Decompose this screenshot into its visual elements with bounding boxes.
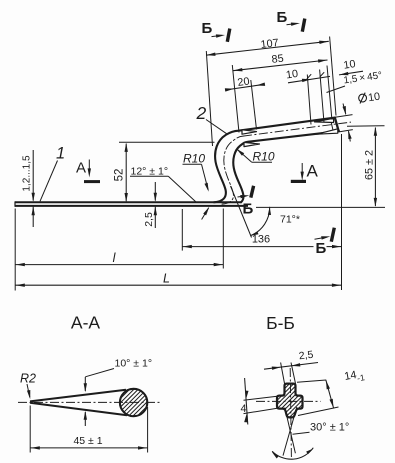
svg-text:R10: R10	[253, 150, 275, 164]
svg-text:Б: Б	[202, 20, 213, 37]
svg-text:30° ± 1°: 30° ± 1°	[310, 422, 349, 434]
svg-text:2: 2	[196, 103, 207, 123]
svg-text:Б: Б	[243, 201, 254, 218]
svg-text:10: 10	[343, 58, 357, 72]
svg-text:65 ± 2: 65 ± 2	[363, 150, 375, 180]
svg-text:71°*: 71°*	[280, 214, 300, 226]
svg-text:Б: Б	[277, 9, 288, 26]
svg-text:Б: Б	[316, 240, 327, 257]
svg-text:4: 4	[241, 403, 247, 415]
svg-text:1: 1	[56, 145, 65, 163]
svg-text:10° ± 1°: 10° ± 1°	[115, 358, 153, 370]
svg-text:10: 10	[285, 68, 299, 82]
svg-text:2,5: 2,5	[143, 212, 155, 227]
svg-text:20: 20	[237, 75, 251, 89]
svg-text:136: 136	[252, 234, 270, 246]
svg-text:R2: R2	[20, 372, 36, 386]
svg-text:R10: R10	[183, 152, 205, 166]
svg-text:2,5: 2,5	[298, 349, 314, 363]
svg-text:L: L	[163, 272, 170, 286]
svg-text:52: 52	[113, 169, 125, 182]
svg-text:А-А: А-А	[71, 313, 101, 333]
svg-text:А: А	[307, 162, 319, 181]
svg-text:107: 107	[260, 37, 279, 51]
svg-text:1,2...1,5: 1,2...1,5	[21, 155, 32, 192]
svg-text:10: 10	[367, 91, 381, 105]
svg-text:45 ± 1: 45 ± 1	[73, 435, 102, 447]
svg-text:85: 85	[271, 53, 284, 66]
svg-text:Б-Б: Б-Б	[266, 313, 295, 333]
svg-text:А: А	[76, 160, 86, 177]
